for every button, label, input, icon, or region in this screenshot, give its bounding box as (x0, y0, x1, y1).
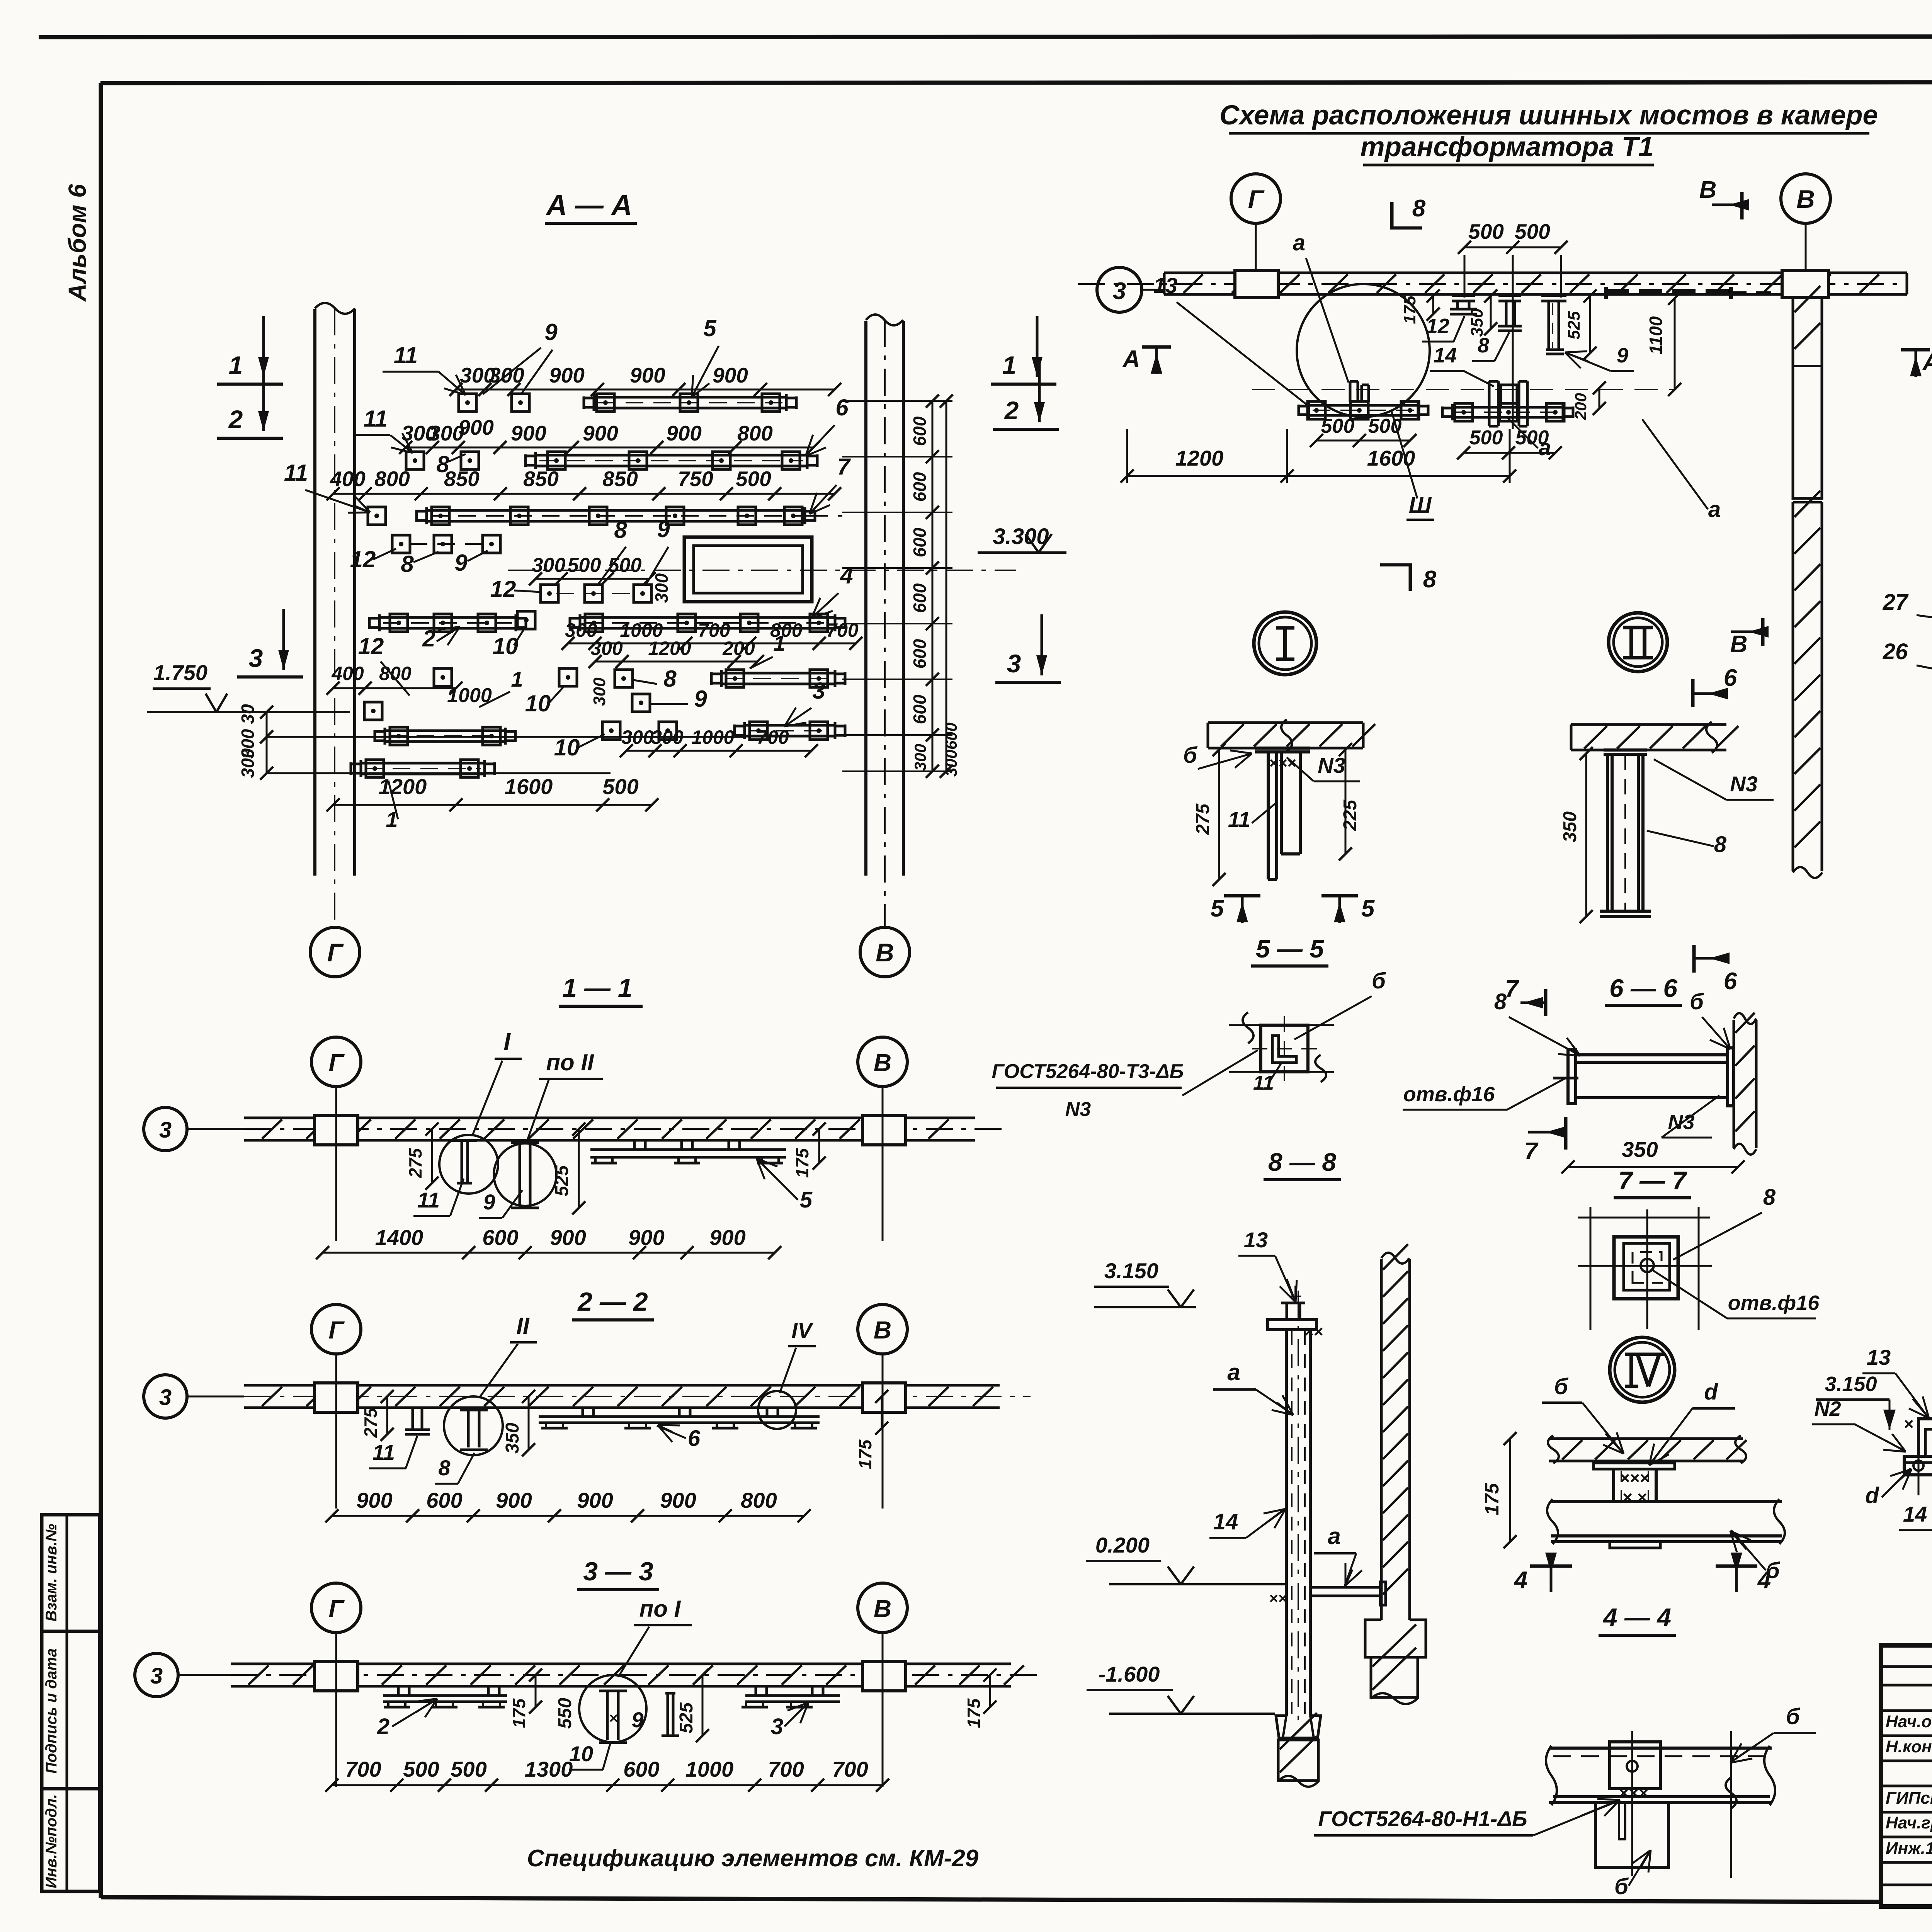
sheet top margin line (39, 36, 1932, 37)
9-9 channel 13 (1918, 1419, 1932, 1456)
row 1-1 beam (311, 1037, 361, 1087)
svg-text:d: d (1865, 1483, 1879, 1508)
A-A bottom-left bars (385, 730, 505, 732)
svg-text:Инв.№подл.: Инв.№подл. (43, 1794, 60, 1888)
section 7 marks (1544, 989, 1548, 1016)
svg-text:×××: ××× (1619, 1784, 1648, 1803)
detail 8-8 small square (1261, 1025, 1308, 1072)
svg-text:6 — 6: 6 — 6 (1609, 974, 1678, 1002)
detail circle IV (1610, 1337, 1675, 1402)
detail circle I (1254, 612, 1316, 675)
svg-text:850: 850 (602, 467, 638, 491)
svg-text:800: 800 (379, 663, 412, 684)
8-8 column foot (1365, 1620, 1426, 1657)
svg-text:5 — 5: 5 — 5 (1256, 934, 1324, 963)
detail II column (1604, 748, 1647, 752)
svg-text:11: 11 (1253, 1072, 1274, 1094)
grid circle В (A-A) (860, 927, 910, 977)
svg-text:1.750: 1.750 (153, 660, 207, 685)
svg-text:275: 275 (361, 1407, 381, 1438)
svg-text:600: 600 (942, 723, 960, 750)
svg-text:500: 500 (602, 774, 638, 799)
svg-text:300: 300 (238, 748, 258, 778)
svg-text:Инж.1к.: Инж.1к. (1886, 1839, 1932, 1858)
svg-text:900: 900 (713, 363, 748, 387)
detail circle II callout (444, 1396, 503, 1455)
svg-text:3: 3 (771, 1714, 783, 1739)
svg-text:6: 6 (835, 395, 849, 420)
3-3 dims (332, 1784, 883, 1786)
svg-text:13: 13 (1867, 1345, 1891, 1369)
svg-text:500: 500 (451, 1757, 486, 1781)
4-4 beam (1551, 1500, 1782, 1503)
svg-text:9: 9 (657, 516, 670, 542)
A-A centerline through opening + 3.300 level (508, 570, 1016, 571)
2-2 dims (332, 1515, 804, 1517)
plan hanger 12 (1452, 294, 1475, 297)
svg-text:5: 5 (800, 1187, 813, 1213)
svg-text:1: 1 (229, 351, 243, 379)
plan dims 500 500 above (1464, 247, 1561, 248)
svg-text:27: 27 (1883, 590, 1909, 615)
svg-text:600: 600 (623, 1757, 659, 1781)
svg-text:б: б (1690, 989, 1704, 1014)
svg-text:14: 14 (1213, 1509, 1238, 1534)
detail circle I callout (439, 1135, 498, 1194)
svg-text:5: 5 (1361, 895, 1375, 922)
9-9 plate d (1904, 1456, 1932, 1475)
svg-text:350: 350 (1622, 1137, 1658, 1162)
svg-text:13: 13 (1244, 1228, 1268, 1252)
plan ceiling beam (hatched) (1164, 272, 1907, 274)
svg-text:IV: IV (792, 1318, 814, 1342)
svg-text:10: 10 (525, 690, 551, 716)
svg-text:Спецификацию элементов см.: Спецификацию элементов см. КМ-29 (527, 1845, 979, 1872)
left stamp boxes (42, 1515, 100, 1891)
svg-text:525: 525 (676, 1702, 697, 1733)
detail circle po II callout (494, 1143, 556, 1206)
svg-text:В: В (1730, 631, 1748, 658)
svg-text:1: 1 (511, 667, 523, 691)
svg-text:11: 11 (394, 342, 418, 368)
svg-text:1600: 1600 (505, 774, 553, 799)
svg-text:26: 26 (1883, 639, 1908, 664)
A-A dims below item4 (568, 643, 856, 645)
A-A busbar item3 (745, 724, 835, 727)
svg-text:б: б (1554, 1374, 1569, 1399)
svg-text:3.300: 3.300 (993, 524, 1049, 549)
svg-text:8: 8 (663, 666, 677, 692)
svg-text:14: 14 (1434, 344, 1457, 367)
frame top (100, 82, 1932, 83)
bottom detail pocket (1595, 1803, 1668, 1867)
svg-text:900: 900 (660, 1488, 696, 1512)
svg-text:11: 11 (364, 406, 388, 432)
detail circle IV callout small (758, 1391, 796, 1429)
plan section line a (dash) (1252, 389, 1675, 390)
svg-text:600: 600 (910, 694, 930, 724)
svg-text:400: 400 (331, 663, 364, 684)
svg-text:В: В (874, 1049, 891, 1077)
svg-text:0.200: 0.200 (1095, 1533, 1150, 1557)
svg-text:а: а (1328, 1523, 1340, 1549)
4-4 ceiling hatch (1549, 1437, 1743, 1440)
svg-text:400: 400 (330, 467, 366, 491)
svg-text:8: 8 (614, 517, 627, 543)
plan lower dim line 1200/1600 ticks verticals (1126, 429, 1128, 483)
svg-text:900: 900 (496, 1488, 532, 1512)
svg-text:600: 600 (910, 527, 930, 557)
svg-text:10: 10 (554, 735, 580, 760)
svg-text:N3: N3 (1318, 753, 1345, 777)
svg-text:500: 500 (1515, 219, 1550, 243)
plan hanger 8 (1498, 294, 1521, 297)
svg-text:8: 8 (1478, 334, 1489, 357)
plan embedded plate under beam (1606, 289, 1731, 295)
svg-text:1: 1 (1002, 351, 1017, 379)
8-8 post bottom foot (1276, 1716, 1321, 1738)
row 3-3 beam (311, 1583, 361, 1633)
svg-text:В: В (876, 938, 894, 967)
4-4 plate (1594, 1463, 1675, 1469)
svg-text:900: 900 (583, 421, 618, 445)
grid circle Г (A-A) (310, 927, 360, 977)
svg-text:Г: Г (1248, 185, 1265, 213)
svg-text:9: 9 (1617, 344, 1628, 367)
svg-text:500: 500 (1469, 427, 1503, 449)
svg-text:А: А (1922, 349, 1932, 376)
svg-text:500: 500 (736, 467, 771, 491)
svg-text:В: В (874, 1595, 891, 1622)
svg-text:600: 600 (910, 583, 930, 613)
svg-text:8: 8 (1412, 195, 1426, 222)
svg-text:700: 700 (345, 1757, 381, 1781)
svg-text:трансформатора Т1: трансформатора Т1 (1360, 132, 1653, 162)
svg-text:ГИПстр.: ГИПстр. (1886, 1789, 1932, 1808)
svg-text:7: 7 (837, 454, 851, 480)
8-8 post 14 (1285, 1330, 1288, 1716)
svg-text:по II: по II (546, 1049, 594, 1075)
svg-text:1 — 1: 1 — 1 (562, 973, 632, 1003)
svg-text:800: 800 (741, 1488, 777, 1512)
plan column block В (1782, 270, 1828, 298)
section 6 marks (1691, 679, 1695, 707)
svg-text:3: 3 (249, 644, 263, 672)
A-A dims above item7 (333, 493, 835, 495)
svg-text:500: 500 (1368, 415, 1402, 437)
svg-text:300: 300 (651, 573, 672, 603)
svg-text:8 — 8: 8 — 8 (1268, 1148, 1336, 1176)
svg-text:9: 9 (631, 1708, 643, 1732)
svg-text:9: 9 (544, 319, 558, 345)
detail 7-7 beam (6-6 content) (1568, 1049, 1576, 1104)
svg-text:11: 11 (372, 1440, 395, 1464)
svg-text:800: 800 (737, 421, 773, 445)
svg-text:500: 500 (1321, 415, 1355, 437)
svg-text:14: 14 (1903, 1502, 1927, 1526)
svg-text:4: 4 (1514, 1567, 1527, 1594)
svg-text:4: 4 (840, 563, 853, 588)
svg-text:1200: 1200 (1175, 446, 1224, 470)
svg-text:750: 750 (678, 467, 713, 491)
svg-text:9: 9 (454, 550, 468, 576)
svg-text:8: 8 (1763, 1185, 1776, 1210)
svg-text:200: 200 (722, 638, 755, 659)
svg-text:350: 350 (1560, 811, 1580, 842)
svg-text:275: 275 (1193, 803, 1213, 835)
svg-text:700: 700 (826, 619, 859, 641)
svg-text:900: 900 (630, 363, 665, 387)
A-A dims above item6 (406, 447, 813, 449)
svg-text:б: б (1183, 743, 1198, 768)
svg-text:8: 8 (1423, 566, 1437, 593)
svg-text:б: б (1372, 968, 1386, 993)
svg-text:Г: Г (328, 1595, 345, 1622)
svg-text:600: 600 (910, 472, 930, 502)
frame left (99, 83, 103, 1898)
svg-text:II: II (516, 1313, 530, 1339)
8-8 hatched column (1380, 1259, 1383, 1620)
svg-text:175: 175 (855, 1439, 875, 1469)
svg-text:а: а (1708, 497, 1721, 522)
svg-text:13: 13 (1153, 273, 1177, 298)
detail I plate and angles (1255, 747, 1310, 750)
svg-text:275: 275 (405, 1148, 425, 1178)
A-A busbar item4 (580, 616, 835, 619)
svg-text:Взам. инв.№: Взам. инв.№ (43, 1524, 60, 1621)
svg-text:300: 300 (911, 744, 929, 771)
svg-text:8: 8 (401, 551, 414, 577)
svg-text:N3: N3 (1730, 772, 1758, 796)
svg-text:××: ×× (1304, 1322, 1323, 1340)
svg-text:9: 9 (694, 686, 707, 712)
svg-text:850: 850 (523, 467, 559, 491)
title block outer (1881, 1645, 1932, 1906)
detail circle II (1609, 613, 1667, 672)
svg-text:1: 1 (773, 631, 785, 655)
svg-text:900: 900 (458, 415, 494, 439)
svg-text:2: 2 (377, 1714, 389, 1739)
svg-text:××: ×× (1269, 1590, 1287, 1607)
plan grid circle В (1781, 174, 1830, 223)
plan dims 500x4 below (1316, 440, 1410, 442)
svg-text:1200: 1200 (379, 774, 427, 799)
svg-text:7: 7 (1505, 976, 1519, 1002)
svg-text:1100: 1100 (1646, 316, 1666, 354)
svg-text:6: 6 (1724, 968, 1737, 995)
svg-text:2 — 2: 2 — 2 (577, 1287, 648, 1316)
svg-text:550: 550 (555, 1698, 575, 1729)
svg-text:2: 2 (1004, 396, 1019, 425)
A-A dims above item5 (456, 389, 835, 391)
svg-text:3: 3 (1113, 278, 1126, 304)
svg-text:8: 8 (438, 1456, 451, 1480)
svg-text:-1.600: -1.600 (1099, 1662, 1160, 1686)
A-A left column (axis Г) (313, 309, 316, 876)
svg-text:Подпись и дата: Подпись и дата (43, 1648, 60, 1774)
svg-text:Г: Г (327, 938, 344, 967)
svg-text:225: 225 (1340, 799, 1361, 831)
svg-text:300: 300 (590, 638, 623, 659)
svg-text:11: 11 (284, 460, 308, 486)
svg-text:а: а (1293, 230, 1305, 255)
svg-text:а: а (1539, 435, 1551, 460)
svg-text:700: 700 (768, 1757, 804, 1781)
A-A nodes 10/8/9 (559, 668, 577, 686)
svg-text:175: 175 (792, 1148, 812, 1178)
svg-text:800: 800 (374, 467, 410, 491)
8-8 cross arm a (1310, 1586, 1380, 1589)
svg-text:I: I (503, 1028, 511, 1056)
svg-text:900: 900 (666, 421, 702, 445)
plan dims 1200/1600 (1127, 475, 1510, 477)
svg-text:d: d (1704, 1379, 1718, 1405)
svg-text:11: 11 (417, 1188, 440, 1212)
plan grid circle Г (1231, 174, 1281, 223)
svg-text:1600: 1600 (1367, 446, 1415, 470)
3-3 second post (665, 1692, 675, 1695)
svg-text:11: 11 (1228, 807, 1250, 832)
A-A right column (axis В) (864, 321, 867, 876)
svg-text:900: 900 (628, 1225, 664, 1250)
svg-text:б: б (1614, 1874, 1629, 1899)
svg-text:900: 900 (511, 421, 546, 445)
svg-text:по I: по I (639, 1596, 681, 1622)
svg-text:175: 175 (509, 1698, 529, 1728)
svg-text:600: 600 (482, 1225, 518, 1250)
svg-text:Нач.отд: Нач.отд (1886, 1712, 1932, 1731)
svg-text:5: 5 (703, 315, 717, 341)
svg-text:В: В (874, 1316, 891, 1344)
svg-text:В: В (1699, 177, 1717, 203)
svg-text:Н.контр: Н.контр (1886, 1737, 1932, 1756)
svg-text:350: 350 (502, 1423, 523, 1454)
svg-text:б: б (1786, 1704, 1801, 1729)
svg-text:300: 300 (942, 750, 960, 777)
detail I (5-5 top): ceiling hatch (1208, 721, 1363, 724)
detail II (6-6 top): ceiling hatch (1571, 723, 1726, 726)
svg-text:175: 175 (1481, 1483, 1503, 1515)
detail 7-7 square (1614, 1237, 1678, 1299)
svg-text:6: 6 (688, 1426, 701, 1451)
svg-text:7: 7 (1524, 1138, 1539, 1165)
svg-text:×: × (1904, 1415, 1914, 1434)
svg-text:а: а (1227, 1359, 1240, 1385)
row 2-2 beam (311, 1304, 361, 1354)
frame bottom (101, 1897, 1881, 1902)
svg-text:300: 300 (590, 677, 609, 706)
1-1 long bar item5 (590, 1148, 786, 1151)
svg-text:8: 8 (1714, 832, 1727, 857)
svg-text:600: 600 (426, 1488, 462, 1512)
svg-text:3: 3 (1007, 649, 1021, 678)
A-A busbar item6 (536, 454, 807, 457)
svg-text:3.150: 3.150 (1825, 1372, 1877, 1396)
svg-text:2: 2 (228, 405, 243, 434)
svg-text:175: 175 (964, 1698, 984, 1728)
A-A row extension lines right (842, 400, 952, 402)
svg-text:12: 12 (490, 576, 516, 602)
svg-text:3: 3 (150, 1663, 163, 1689)
svg-text:900: 900 (549, 363, 585, 387)
8-8 top anchor (1268, 1320, 1316, 1330)
svg-text:3 — 3: 3 — 3 (583, 1557, 653, 1586)
svg-text:300: 300 (532, 554, 566, 577)
svg-text:7 — 7: 7 — 7 (1618, 1166, 1687, 1195)
A-A busbar item2 (379, 616, 516, 619)
4-4 stub column (1612, 1469, 1615, 1502)
A-A wall opening rectangle (684, 537, 812, 602)
svg-text:6: 6 (1724, 665, 1737, 691)
svg-text:4 — 4: 4 — 4 (1602, 1603, 1671, 1631)
A-A nodes row with 300/500/500 dims (541, 585, 558, 602)
svg-text:× ×: × × (1622, 1488, 1647, 1507)
A-A busbar item5 (594, 396, 786, 399)
svg-text:10: 10 (493, 633, 519, 659)
svg-text:5: 5 (1211, 895, 1225, 922)
svg-text:1000: 1000 (447, 684, 492, 707)
3-3 right bar item3 (745, 1694, 840, 1697)
svg-text:Альбом 6: Альбом 6 (63, 184, 91, 302)
plan section marks 8 (1390, 202, 1394, 230)
plan grid circle З (1097, 267, 1142, 312)
svg-text:×××: ××× (1620, 1469, 1650, 1488)
svg-text:А — А: А — А (546, 189, 632, 221)
title block left rows (1881, 1665, 1932, 1668)
svg-text:Схема расположения шинных мост: Схема расположения шинных мостов в камер… (1219, 100, 1878, 131)
svg-text:ГОСТ5264-80-Т3-ΔБ: ГОСТ5264-80-Т3-ΔБ (992, 1060, 1184, 1083)
svg-text:2: 2 (422, 626, 435, 651)
A-A right 600 dim stack (932, 401, 934, 771)
plan column block Г (1235, 270, 1278, 298)
plan busbar assembly right (14) (1489, 380, 1498, 383)
svg-text:Нач.гр.: Нач.гр. (1886, 1813, 1932, 1832)
svg-text:850: 850 (444, 467, 480, 491)
2-2 long bar item6 (539, 1415, 820, 1418)
svg-text:900: 900 (356, 1488, 392, 1512)
svg-text:500: 500 (1468, 219, 1504, 243)
svg-text:12: 12 (358, 633, 384, 659)
svg-text:3: 3 (159, 1385, 172, 1410)
A-A busbar item7 (long) (427, 509, 805, 512)
svg-text:525: 525 (1565, 311, 1583, 340)
svg-text:Г: Г (328, 1049, 345, 1077)
svg-text:700: 700 (832, 1757, 868, 1781)
section 4 marks (1530, 1565, 1572, 1568)
svg-text:1300: 1300 (525, 1757, 573, 1781)
svg-text:3.150: 3.150 (1104, 1259, 1158, 1283)
svg-text:1400: 1400 (375, 1225, 423, 1250)
svg-text:600: 600 (910, 639, 930, 668)
svg-text:900: 900 (577, 1488, 613, 1512)
A-A isolated nodes row (12 8 9) (392, 535, 410, 553)
svg-text:1200: 1200 (648, 638, 691, 659)
detail circle po I callout (579, 1675, 646, 1742)
svg-text:4: 4 (1757, 1567, 1771, 1594)
bottom detail plate with hole (1610, 1742, 1660, 1789)
section 5 marks (1224, 894, 1260, 898)
svg-text:12: 12 (350, 546, 376, 572)
svg-text:×: × (609, 1710, 618, 1727)
svg-text:350: 350 (1468, 308, 1486, 337)
plan wall below В (hatched) (1792, 298, 1794, 366)
plan detail III callout circle (1297, 284, 1430, 417)
2-2 hangers (412, 1408, 414, 1430)
svg-text:Ш: Ш (1409, 492, 1432, 518)
svg-text:отв.ф16: отв.ф16 (1728, 1291, 1820, 1315)
svg-text:600: 600 (910, 416, 930, 446)
svg-text:Г: Г (328, 1316, 345, 1344)
